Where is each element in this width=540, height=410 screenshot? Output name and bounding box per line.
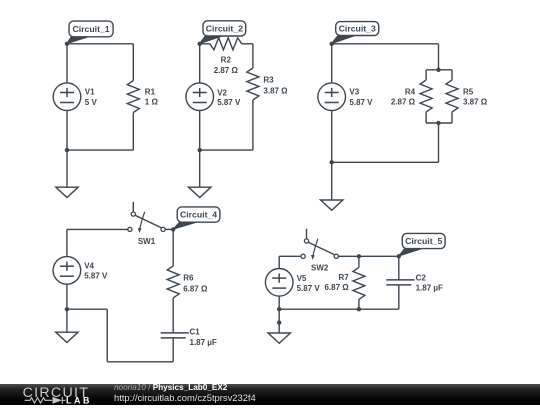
wire bbox=[132, 44, 134, 81]
svg-text:R5: R5 bbox=[463, 88, 474, 97]
wire bbox=[132, 113, 134, 151]
wire bbox=[107, 361, 173, 363]
voltage source V3 bbox=[318, 83, 346, 111]
svg-text:V1: V1 bbox=[85, 88, 95, 97]
wire bbox=[279, 308, 399, 310]
wire bbox=[66, 284, 68, 309]
wire bbox=[332, 43, 439, 45]
label Circuit_5 bbox=[399, 249, 422, 257]
svg-text:5.87 V: 5.87 V bbox=[84, 272, 108, 281]
node bbox=[171, 227, 175, 231]
switch SW1 bbox=[132, 202, 134, 212]
node bbox=[330, 160, 334, 164]
svg-text:R6: R6 bbox=[183, 274, 194, 283]
wire bbox=[438, 44, 440, 70]
wire bbox=[278, 309, 280, 336]
svg-text:1.87 µF: 1.87 µF bbox=[416, 283, 443, 292]
svg-text:3.87 Ω: 3.87 Ω bbox=[263, 87, 288, 96]
wire bbox=[165, 228, 173, 230]
wire bbox=[66, 150, 68, 187]
svg-text:V5: V5 bbox=[297, 274, 307, 283]
svg-text:6.87 Ω: 6.87 Ω bbox=[183, 285, 208, 294]
label Circuit_1 bbox=[67, 37, 89, 44]
switch SW2 bbox=[306, 229, 308, 239]
svg-text:5 V: 5 V bbox=[85, 98, 98, 107]
svg-text:Circuit_5: Circuit_5 bbox=[405, 236, 442, 246]
svg-text:R1: R1 bbox=[145, 88, 156, 97]
wire bbox=[252, 100, 254, 150]
wire bbox=[398, 256, 400, 280]
node bbox=[397, 254, 401, 258]
svg-text:Circuit_3: Circuit_3 bbox=[339, 24, 376, 34]
resistor R3 bbox=[247, 68, 259, 100]
capacitor C2 bbox=[386, 279, 414, 281]
resistor R1 bbox=[127, 81, 139, 113]
svg-text:R2: R2 bbox=[221, 55, 232, 64]
voltage source V1 bbox=[53, 83, 81, 111]
wire bbox=[172, 338, 174, 362]
svg-text:1 Ω: 1 Ω bbox=[145, 98, 159, 107]
wire bbox=[425, 70, 427, 80]
svg-text:SW1: SW1 bbox=[138, 237, 156, 246]
wire bbox=[438, 123, 440, 162]
label Circuit_2 bbox=[200, 36, 223, 44]
svg-text:V2: V2 bbox=[217, 89, 227, 98]
wire bbox=[199, 150, 201, 187]
wire bbox=[66, 229, 68, 256]
wire bbox=[331, 111, 333, 163]
wire bbox=[242, 43, 253, 45]
svg-text:6.87 Ω: 6.87 Ω bbox=[324, 283, 349, 292]
label Circuit_3 bbox=[332, 36, 356, 44]
wire bbox=[199, 44, 201, 83]
wire bbox=[398, 285, 400, 309]
ground bbox=[56, 187, 78, 197]
resistor R5 bbox=[446, 80, 458, 112]
wire bbox=[67, 308, 107, 310]
wire bbox=[358, 256, 360, 267]
ground bbox=[56, 332, 78, 342]
wire bbox=[106, 309, 108, 362]
svg-text:Circuit_2: Circuit_2 bbox=[206, 24, 243, 34]
wire bbox=[278, 256, 280, 268]
node bbox=[357, 254, 361, 258]
svg-text:2.87 Ω: 2.87 Ω bbox=[214, 66, 239, 75]
voltage source V2 bbox=[186, 83, 214, 111]
voltage source V5 bbox=[265, 269, 293, 297]
wire bbox=[358, 299, 360, 309]
svg-text:http://circuitlab.com/cz5tprsv: http://circuitlab.com/cz5tprsv232f4 bbox=[114, 392, 256, 403]
wire bbox=[338, 255, 399, 257]
wire bbox=[451, 70, 453, 80]
wire bbox=[199, 110, 201, 150]
svg-text:Circuit_4: Circuit_4 bbox=[180, 210, 217, 220]
wire bbox=[66, 44, 68, 83]
svg-text:1.87 µF: 1.87 µF bbox=[190, 338, 217, 347]
svg-text:5.87 V: 5.87 V bbox=[217, 98, 241, 107]
node bbox=[65, 307, 69, 311]
svg-text:R7: R7 bbox=[338, 273, 349, 282]
svg-text:LAB: LAB bbox=[66, 395, 92, 405]
wire bbox=[332, 161, 439, 163]
node bbox=[277, 320, 281, 324]
svg-text:Circuit_1: Circuit_1 bbox=[72, 24, 109, 34]
wire bbox=[331, 44, 333, 83]
label Circuit_4 bbox=[173, 222, 197, 229]
capacitor C1 bbox=[161, 332, 189, 334]
svg-text:C2: C2 bbox=[416, 273, 427, 282]
svg-text:C1: C1 bbox=[190, 328, 201, 337]
svg-text:V4: V4 bbox=[84, 261, 94, 270]
wire bbox=[426, 122, 452, 124]
wire bbox=[252, 44, 254, 68]
ground bbox=[189, 187, 211, 197]
resistor R2 bbox=[210, 38, 242, 50]
wire bbox=[278, 296, 280, 309]
wire bbox=[172, 229, 174, 266]
resistor R6 bbox=[167, 266, 179, 298]
wire bbox=[279, 255, 301, 257]
node A bbox=[65, 42, 69, 46]
wire bbox=[67, 149, 133, 151]
wire bbox=[67, 228, 128, 230]
wire bbox=[331, 162, 333, 200]
wire bbox=[172, 298, 174, 333]
node bbox=[198, 42, 202, 46]
wire bbox=[425, 112, 427, 123]
node bbox=[436, 68, 440, 72]
resistor R4 bbox=[420, 80, 432, 112]
node bbox=[357, 307, 361, 311]
svg-text:SW2: SW2 bbox=[311, 264, 329, 273]
wire bbox=[200, 149, 253, 151]
ground bbox=[321, 200, 343, 210]
wire bbox=[200, 43, 210, 45]
resistor R7 bbox=[353, 267, 365, 299]
node bbox=[277, 307, 281, 311]
svg-text:R3: R3 bbox=[263, 76, 274, 85]
wire bbox=[66, 309, 68, 332]
svg-text:R4: R4 bbox=[405, 88, 416, 97]
svg-text:3.87 Ω: 3.87 Ω bbox=[463, 98, 488, 107]
svg-text:2.87 Ω: 2.87 Ω bbox=[391, 98, 416, 107]
wire bbox=[451, 112, 453, 123]
ground bbox=[268, 333, 290, 343]
node bbox=[436, 121, 440, 125]
svg-text:V3: V3 bbox=[349, 88, 359, 97]
node bbox=[65, 148, 69, 152]
node bbox=[330, 42, 334, 46]
footer bar bbox=[0, 384, 540, 405]
node bbox=[198, 148, 202, 152]
svg-text:5.87 V: 5.87 V bbox=[349, 98, 373, 107]
wire bbox=[66, 111, 68, 151]
wire bbox=[426, 69, 452, 71]
voltage source V4 bbox=[53, 257, 81, 285]
svg-text:5.87 V: 5.87 V bbox=[297, 284, 321, 293]
wire bbox=[67, 43, 133, 45]
